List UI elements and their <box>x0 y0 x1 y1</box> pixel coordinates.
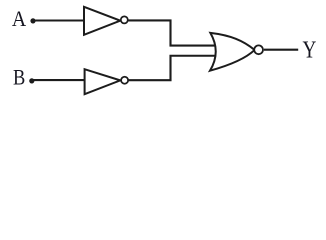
svg-text:A: A <box>12 6 27 31</box>
svg-text:Y: Y <box>303 35 317 63</box>
svg-text:B: B <box>13 66 25 90</box>
